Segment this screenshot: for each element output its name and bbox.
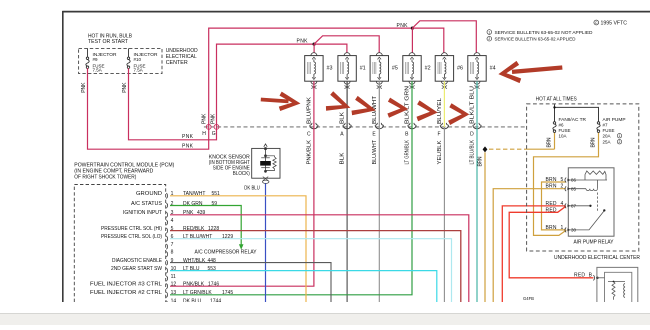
- connector C bump: [310, 123, 319, 129]
- svg-text:85: 85: [571, 186, 577, 191]
- node PNK bus 1 junction: [411, 27, 414, 30]
- svg-text:HOT AT ALL TIMES: HOT AT ALL TIMES: [536, 97, 577, 103]
- svg-text:LT GRN/BLK: LT GRN/BLK: [405, 139, 411, 164]
- svg-text:1: 1: [561, 225, 564, 231]
- svg-text:PNK: PNK: [182, 134, 194, 140]
- PCM pin 8: [166, 252, 167, 257]
- svg-text:#7: #7: [603, 122, 609, 127]
- injector #5: [370, 53, 388, 89]
- svg-text:G: G: [212, 131, 216, 137]
- annotation arrow 5: [417, 100, 438, 121]
- svg-text:#10: #10: [134, 57, 142, 62]
- connector B bump: [408, 123, 417, 129]
- wire RED/BLK 1228 PCM pin 5: [170, 231, 461, 302]
- copyright 1995 VFTC: [594, 20, 599, 25]
- svg-text:1745: 1745: [222, 290, 233, 296]
- wire BLK/LT BLU below injector #4: [476, 81, 478, 127]
- injector #2: [403, 53, 421, 89]
- svg-text:BRN: BRN: [546, 225, 557, 231]
- wire bus2 drop to injector 3: [313, 44, 315, 53]
- PCM pin 5: [166, 228, 167, 233]
- svg-text:UNDERHOOD ELECTRICAL CENTER: UNDERHOOD ELECTRICAL CENTER: [554, 255, 640, 261]
- fuse INJECTOR #9 FUSE 7.5A: [86, 48, 89, 68]
- svg-text:OF RIGHT SHOCK TOWER): OF RIGHT SHOCK TOWER): [74, 175, 136, 181]
- svg-text:RED: RED: [574, 272, 585, 278]
- svg-text:1: 1: [488, 30, 490, 34]
- svg-text:PNK: PNK: [210, 113, 216, 124]
- svg-text:BLK: BLK: [340, 152, 346, 165]
- connector H bump: [206, 125, 211, 130]
- svg-text:8: 8: [171, 250, 174, 256]
- node BRN splice diamond: [483, 146, 488, 152]
- wire LT BLU 553 PCM pin 10: [170, 271, 437, 302]
- svg-text:2: 2: [619, 140, 621, 144]
- wire LT BLU/WHT 1229 PCM pin 6: [170, 239, 452, 302]
- wire BRN fuse 6 tail: [554, 132, 556, 149]
- wire bus1 drop to injector 2: [411, 28, 413, 52]
- svg-text:BLK: BLK: [340, 111, 346, 124]
- svg-text:TEST OR START: TEST OR START: [88, 39, 129, 45]
- svg-text:11: 11: [171, 274, 176, 280]
- service bulletin note 1: [487, 30, 492, 35]
- wire BLK/LT GRN below injector #2: [411, 81, 413, 127]
- PCM pin 10: [166, 268, 167, 273]
- svg-text:#2: #2: [425, 66, 431, 72]
- svg-text:4: 4: [561, 201, 564, 207]
- wire bus2 upper branch to injector 5: [314, 36, 379, 53]
- feed wire to fuses: [555, 104, 599, 122]
- injector #1: [338, 53, 356, 89]
- wire PNK from fuse 9 to bus 1: [88, 28, 413, 149]
- svg-text:FUSE: FUSE: [603, 128, 615, 133]
- svg-text:BRN: BRN: [478, 156, 484, 166]
- svg-text:PNK: PNK: [297, 38, 309, 44]
- svg-text:12: 12: [171, 282, 177, 288]
- wire DK GRN 59 PCM pin 2 to A/C compressor relay: [170, 206, 241, 245]
- connector E bump: [375, 123, 384, 129]
- svg-text:BLOCK): BLOCK): [233, 171, 250, 177]
- svg-text:G4FB: G4FB: [523, 296, 534, 301]
- svg-text:FUEL INJECTOR #3 CTRL: FUEL INJECTOR #3 CTRL: [90, 282, 162, 288]
- svg-text:#6: #6: [457, 66, 463, 72]
- wire BLK from connector A down: [346, 127, 348, 302]
- annotation arrow 6: [448, 103, 469, 125]
- svg-text:1746: 1746: [208, 282, 219, 288]
- connector A bump: [343, 123, 352, 129]
- air pump relay box: [568, 168, 614, 236]
- svg-text:10A: 10A: [559, 133, 567, 138]
- injector #4: [468, 53, 486, 89]
- svg-text:H: H: [202, 131, 206, 137]
- svg-text:LT GRN/BLK: LT GRN/BLK: [183, 290, 212, 296]
- svg-text:PNK/BLK: PNK/BLK: [183, 282, 205, 288]
- wire BRN relay pin 85 feed: [493, 189, 566, 302]
- svg-text:BLK/LT GRN: BLK/LT GRN: [405, 85, 411, 124]
- PCM dashed box: [74, 185, 165, 303]
- PCM pin 7: [166, 244, 167, 249]
- wire LT BLU/BLK from connector D down: [476, 127, 478, 302]
- wire BRN fuse 7 to relay pin 30: [534, 132, 599, 235]
- svg-text:4: 4: [171, 218, 174, 224]
- svg-text:87: 87: [571, 204, 577, 209]
- svg-text:2ND GEAR START SW: 2ND GEAR START SW: [111, 266, 162, 272]
- wire BLU/WHT from connector E down: [378, 127, 380, 302]
- svg-text:#6: #6: [559, 122, 565, 127]
- svg-text:PRESSURE CTRL SOL (HI): PRESSURE CTRL SOL (HI): [101, 226, 162, 232]
- svg-text:7.5A: 7.5A: [93, 68, 102, 73]
- svg-text:BLU/YEL: BLU/YEL: [437, 98, 443, 124]
- bottom whiteout: [0, 302, 650, 325]
- PCM pin 11: [166, 276, 167, 281]
- wire PNK 439 PCM pin 3: [170, 215, 469, 302]
- svg-text:86: 86: [571, 178, 577, 183]
- wire PNK/BLK from connector C down to PCM pin 12: [170, 127, 314, 286]
- svg-text:BRN: BRN: [546, 177, 557, 183]
- svg-text:FAN9/AC TR: FAN9/AC TR: [559, 117, 587, 122]
- wire DK BLU from knock sensor down: [265, 183, 267, 302]
- svg-text:5: 5: [561, 177, 564, 183]
- svg-text:(IN ENGINE COMPT, REARWARD: (IN ENGINE COMPT, REARWARD: [74, 169, 153, 175]
- svg-text:SERVICE BULLETIN 63-65-02 APPL: SERVICE BULLETIN 63-65-02 APPLIED: [495, 37, 577, 42]
- svg-text:#1: #1: [360, 66, 366, 72]
- service bulletin note 2: [487, 36, 492, 41]
- fuse symbol at x=598.5: [597, 122, 600, 133]
- node PNK bus 2 junction: [313, 43, 316, 46]
- schematic frame border left: [62, 11, 64, 302]
- svg-text:13: 13: [171, 290, 177, 296]
- schematic frame border top: [62, 11, 650, 13]
- PCM pin 13: [166, 292, 167, 297]
- svg-text:#4: #4: [490, 66, 496, 72]
- svg-text:1995 VFTC: 1995 VFTC: [601, 21, 628, 27]
- PCM pin 9: [166, 260, 167, 265]
- svg-text:SERVICE BULLETIN 63-65-02 NOT: SERVICE BULLETIN 63-65-02 NOT APPLIED: [495, 30, 594, 35]
- svg-text:CENTER: CENTER: [166, 60, 188, 66]
- injector #3: [305, 53, 323, 89]
- svg-text:2: 2: [561, 184, 564, 190]
- svg-text:AIR PUMP RELAY: AIR PUMP RELAY: [574, 239, 614, 245]
- svg-text:7: 7: [171, 242, 174, 248]
- svg-text:25A: 25A: [603, 139, 611, 144]
- svg-text:BRN: BRN: [590, 137, 596, 147]
- connector D bump: [473, 123, 482, 129]
- wire TAN/WHT 551 PCM pin 1: [170, 196, 306, 302]
- wire RED relay pin 87 to air pump: [509, 206, 593, 277]
- svg-text:7.5A: 7.5A: [134, 68, 143, 73]
- injector #6: [435, 53, 453, 89]
- svg-text:#3: #3: [327, 66, 333, 72]
- PCM pin 2: [166, 203, 167, 208]
- PCM pin 1: [166, 193, 167, 198]
- PCM pin 4: [166, 220, 167, 225]
- underhood electrical center dashed box right: [527, 104, 639, 251]
- annotation arrow 2: [326, 91, 351, 110]
- annotation arrow 7: [512, 68, 562, 72]
- svg-text:PNK: PNK: [397, 23, 409, 29]
- svg-text:FUEL INJECTOR #2 CTRL: FUEL INJECTOR #2 CTRL: [90, 290, 162, 296]
- svg-text:DK BLU: DK BLU: [244, 185, 260, 191]
- svg-text:PNK: PNK: [81, 82, 87, 93]
- connector F bump: [440, 123, 449, 129]
- wire YEL/BLK from connector F down: [443, 127, 445, 302]
- svg-text:BLU/PNK: BLU/PNK: [307, 96, 313, 124]
- svg-text:RED: RED: [546, 207, 557, 213]
- wire bus1 to injector 6: [412, 28, 443, 52]
- svg-text:30: 30: [571, 228, 577, 233]
- svg-text:C: C: [307, 132, 311, 138]
- svg-text:D: D: [470, 132, 474, 138]
- relay pin 86: [565, 178, 566, 183]
- svg-text:2: 2: [488, 37, 490, 41]
- relay pin 30: [565, 228, 566, 233]
- svg-text:BLU/WHT: BLU/WHT: [372, 140, 378, 165]
- PCM pin 12: [166, 284, 167, 289]
- svg-text:#5: #5: [392, 66, 398, 72]
- svg-text:20A: 20A: [603, 133, 611, 138]
- svg-text:DIAGNOSTIC ENABLE: DIAGNOSTIC ENABLE: [112, 258, 163, 264]
- air pump motor box: [597, 267, 638, 302]
- wire BLU/WHT below injector #5: [378, 81, 380, 127]
- svg-text:#9: #9: [93, 57, 99, 62]
- wire PNK from fuse 10 to bus 2: [129, 44, 315, 140]
- svg-text:AIR PUMP: AIR PUMP: [603, 117, 626, 122]
- svg-text:POWERTRAIN CONTROL MODULE (PCM: POWERTRAIN CONTROL MODULE (PCM): [74, 162, 174, 168]
- PCM pin 6: [166, 236, 167, 241]
- bulkhead connector dashed line: [204, 126, 527, 128]
- wire WHT/BLK 448 PCM pin 9: [170, 263, 331, 302]
- svg-text:IGNITION INPUT: IGNITION INPUT: [123, 210, 162, 216]
- fuse INJECTOR #10 FUSE 7.5A: [127, 48, 130, 68]
- PCM pin 3: [166, 212, 167, 217]
- PCM pin 14: [166, 301, 167, 306]
- annotation arrow 4: [387, 98, 408, 118]
- wire BRN from splice down: [484, 152, 486, 302]
- svg-text:A/C STATUS: A/C STATUS: [131, 201, 163, 207]
- relay coil resistor: [568, 171, 607, 230]
- wire BLU/YEL below injector #6: [443, 81, 445, 127]
- relay pin 85: [565, 186, 566, 191]
- svg-text:F: F: [438, 132, 441, 138]
- svg-text:LT BLU/BLK: LT BLU/BLK: [470, 139, 476, 164]
- wire LT GRN/BLK from connector B down to PCM pin 13: [170, 127, 412, 295]
- svg-text:BRN: BRN: [546, 184, 557, 190]
- wire BLU/PNK below injector #3: [313, 81, 315, 127]
- svg-text:C: C: [595, 21, 598, 25]
- svg-text:RED: RED: [546, 201, 557, 207]
- knock sensor: [252, 144, 280, 184]
- svg-text:A/C COMPRESSOR RELAY: A/C COMPRESSOR RELAY: [195, 249, 257, 255]
- svg-text:GROUND: GROUND: [136, 191, 162, 197]
- fuse symbol at x=554.5: [553, 122, 556, 133]
- annotation arrow 1: [261, 100, 289, 102]
- annotation arrow 3: [352, 96, 377, 115]
- relay pin 87: [565, 203, 566, 208]
- svg-text:PNK/BLK: PNK/BLK: [307, 139, 313, 164]
- svg-text:BRN: BRN: [546, 137, 552, 147]
- svg-text:1: 1: [619, 134, 621, 138]
- wire BLK below injector #1: [346, 81, 348, 127]
- svg-text:PRESSURE CTRL SOL (LO): PRESSURE CTRL SOL (LO): [101, 234, 162, 240]
- wire bus2 to injector 1: [314, 44, 347, 53]
- fuse block dashed box top-left: [79, 48, 162, 73]
- svg-text:PNK: PNK: [182, 144, 194, 150]
- wire BRN dashed from splice to fuse block: [489, 148, 527, 150]
- svg-text:FUSE: FUSE: [559, 128, 571, 133]
- svg-text:YEL/BLK: YEL/BLK: [437, 140, 443, 165]
- svg-text:PNK: PNK: [202, 113, 208, 124]
- wire bus1 upper branch to injector 4: [412, 21, 476, 53]
- svg-text:PNK: PNK: [122, 82, 128, 93]
- connector G bump: [214, 125, 219, 130]
- svg-text:BLK/LT BLU: BLK/LT BLU: [470, 85, 476, 124]
- wire RED relay pin 87 down: [502, 206, 566, 302]
- air pump motor connector B: [593, 275, 594, 280]
- wire BRN relay pin 86 to pin 30 jumper: [542, 182, 566, 230]
